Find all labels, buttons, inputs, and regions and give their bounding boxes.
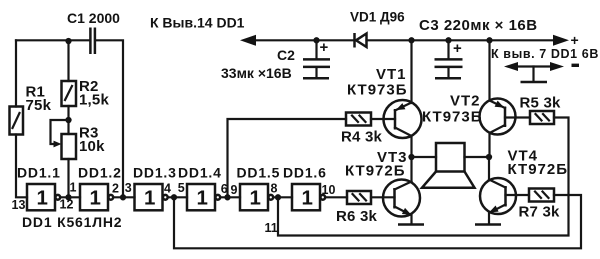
- wire speaker right to node: [465, 156, 490, 158]
- node pin6 junction: [224, 194, 230, 200]
- svg-text:К выв. 7 DD1 6В: К выв. 7 DD1 6В: [491, 47, 599, 61]
- gate DD1.2: [80, 184, 113, 210]
- resistor R2: [62, 81, 77, 106]
- transistor VT4: [480, 157, 529, 223]
- svg-text:VT1: VT1: [376, 66, 407, 83]
- resistor R1: [10, 107, 24, 135]
- wire to speaker left: [412, 156, 437, 158]
- svg-text:1: 1: [250, 187, 261, 210]
- gate DD1.1: [27, 184, 60, 210]
- capacitor C1: [90, 28, 95, 55]
- svg-text:1,5k: 1,5k: [79, 91, 109, 108]
- svg-text:R5 3k: R5 3k: [520, 95, 561, 112]
- wire top rail right of diode with right arrow: [367, 39, 557, 41]
- node C1 feedback junction: [120, 194, 126, 200]
- svg-text:DD1.5: DD1.5: [237, 165, 281, 181]
- ground bar under C3: [435, 77, 461, 80]
- svg-text:12: 12: [60, 198, 74, 212]
- gate DD1.5: [240, 184, 273, 210]
- node C1/R2 junction: [65, 38, 71, 44]
- node diode/VT1 junction: [408, 37, 414, 43]
- node pin4 junction: [171, 194, 177, 200]
- wire top rail with left arrow: [252, 39, 353, 41]
- resistor R6: [347, 191, 371, 204]
- node pin8 junction: [275, 194, 281, 200]
- minus label: [572, 64, 580, 67]
- svg-text:33мк ×16В: 33мк ×16В: [221, 65, 292, 81]
- svg-text:C2: C2: [277, 47, 295, 63]
- svg-text:1: 1: [37, 187, 48, 210]
- svg-text:10k: 10k: [79, 138, 105, 155]
- transistor VT2: [480, 99, 531, 158]
- resistor R3 trimmer: [62, 134, 77, 159]
- wire VT2 emitter lead: [488, 40, 490, 100]
- svg-text:1: 1: [90, 187, 101, 210]
- svg-text:КТ973Б: КТ973Б: [347, 82, 408, 99]
- ground bar under VT3: [398, 223, 424, 226]
- node R2/R3 junction: [65, 117, 71, 123]
- svg-text:1: 1: [144, 187, 155, 210]
- svg-text:1: 1: [197, 187, 208, 210]
- wire R7 to outer rail: [174, 195, 581, 248]
- svg-text:1: 1: [302, 187, 313, 210]
- wire left rail upper: [15, 40, 17, 106]
- svg-text:DD1.6: DD1.6: [283, 165, 327, 181]
- svg-text:DD1.2: DD1.2: [78, 165, 122, 181]
- wire R6 to VT3 base: [371, 196, 395, 198]
- wire R3 bottom to gate row: [67, 159, 69, 197]
- wire R3 wiper arm: [51, 120, 69, 144]
- svg-text:10: 10: [322, 183, 336, 197]
- svg-text:4: 4: [164, 182, 171, 196]
- wire G3 out to G4: [168, 196, 187, 198]
- svg-text:3: 3: [125, 181, 132, 195]
- svg-text:R6 3k: R6 3k: [336, 208, 377, 225]
- svg-text:+: +: [453, 40, 463, 57]
- diode VD1: [355, 33, 367, 48]
- svg-text:КТ972Б: КТ972Б: [508, 161, 569, 178]
- capacitor C2: [303, 40, 330, 76]
- wire top-left horizontal to C1: [16, 39, 89, 41]
- svg-text:DD1.3: DD1.3: [133, 165, 177, 181]
- gate DD1.6: [292, 184, 325, 210]
- transistor VT1: [384, 100, 422, 157]
- gate DD1.3: [135, 184, 168, 210]
- wire G4 out to G5: [221, 196, 240, 198]
- svg-text:75k: 75k: [26, 97, 52, 114]
- svg-text:+: +: [571, 32, 579, 48]
- svg-text:1: 1: [70, 181, 77, 195]
- svg-text:VD1 Д96: VD1 Д96: [350, 10, 405, 25]
- wire R5 to inner rail: [278, 118, 569, 236]
- svg-text:9: 9: [231, 183, 238, 197]
- wire VT1 emitter lead: [410, 40, 412, 103]
- wire G1 out to G2: [61, 196, 80, 198]
- resistor R7: [529, 189, 554, 202]
- wire G2 out to G3: [114, 196, 135, 198]
- svg-text:R4 3k: R4 3k: [341, 129, 382, 146]
- svg-text:VT2: VT2: [450, 93, 481, 110]
- svg-text:КТ972Б: КТ972Б: [345, 163, 406, 180]
- svg-text:DD1 К561ЛН2: DD1 К561ЛН2: [22, 214, 122, 230]
- capacitor C3: [435, 40, 463, 76]
- ground bar under C2: [303, 77, 329, 80]
- wire R2 top from C1 node: [67, 40, 69, 81]
- power symbol double arrow: [504, 62, 564, 82]
- resistor R5: [530, 111, 554, 124]
- svg-text:+: +: [320, 39, 330, 56]
- node pin12 junction: [65, 194, 71, 200]
- svg-text:DD1.1: DD1.1: [17, 165, 61, 181]
- resistor R4: [346, 113, 371, 126]
- svg-text:5: 5: [178, 181, 185, 195]
- wire C1 right to feedback drop: [96, 40, 123, 197]
- wire left rail lower into DD1.1: [16, 135, 27, 198]
- svg-text:2: 2: [112, 181, 119, 195]
- svg-text:C3 220мк × 16В: C3 220мк × 16В: [419, 17, 538, 34]
- svg-text:13: 13: [12, 198, 26, 212]
- wire R4 riser from pin6 node: [228, 119, 347, 197]
- node speaker right junction: [486, 154, 492, 160]
- wire DD1.6 out to R6: [326, 196, 348, 198]
- speaker BA1: [422, 143, 475, 188]
- svg-text:DD1.4: DD1.4: [178, 165, 222, 181]
- wire G5 out to G6: [274, 196, 292, 198]
- node C3 junction: [445, 37, 451, 43]
- svg-text:8: 8: [271, 182, 278, 196]
- ground bar under VT4: [475, 223, 501, 226]
- svg-text:C1 2000: C1 2000: [67, 10, 120, 26]
- wire R2 to R3: [67, 106, 69, 134]
- wire R4 to VT1 base: [371, 118, 395, 120]
- node VT2 emitter junction: [486, 37, 492, 43]
- svg-text:КТ973Б: КТ973Б: [422, 109, 483, 126]
- node C2 junction: [313, 37, 319, 43]
- svg-text:11: 11: [265, 221, 278, 235]
- svg-text:К Выв.14 DD1: К Выв.14 DD1: [150, 15, 245, 31]
- svg-text:R7 3k: R7 3k: [519, 204, 560, 221]
- gate DD1.4: [187, 184, 220, 210]
- node speaker left junction: [408, 154, 414, 160]
- transistor VT3: [383, 157, 420, 223]
- svg-text:6: 6: [221, 182, 228, 196]
